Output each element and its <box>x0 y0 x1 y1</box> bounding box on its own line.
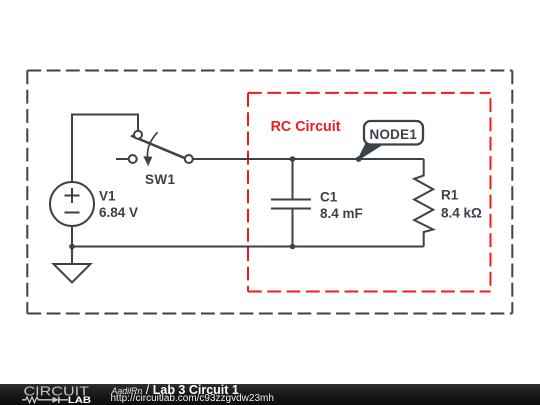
wire bottom rail <box>72 246 424 248</box>
switch arrow arc <box>147 132 157 157</box>
node NODE1 dot <box>356 156 362 162</box>
NODE1 callout tail <box>359 144 383 160</box>
svg-text:SW1: SW1 <box>145 172 176 187</box>
svg-text:NODE1: NODE1 <box>370 127 418 142</box>
logo resistor squiggle + diode <box>22 397 68 403</box>
CircuitLab logo <box>20 384 120 405</box>
NODE1 callout box <box>364 121 423 145</box>
RC circuit red dashed box <box>248 93 491 292</box>
svg-text:8.4 mF: 8.4 mF <box>320 206 363 221</box>
switch arrowhead <box>143 156 152 166</box>
switch blade SW1 <box>131 136 185 159</box>
ground <box>54 264 91 283</box>
junction node C1 top <box>290 156 296 162</box>
switch right terminal <box>185 155 193 163</box>
svg-text:R1: R1 <box>441 188 459 203</box>
capacitor C1 <box>271 159 311 247</box>
wire switch to node <box>193 158 424 160</box>
footer bar <box>0 384 540 405</box>
svg-text:V1: V1 <box>99 189 116 204</box>
svg-text:6.84 V: 6.84 V <box>99 205 138 220</box>
switch left terminal <box>129 155 137 163</box>
svg-text:8.4 kΩ: 8.4 kΩ <box>441 206 482 221</box>
junction node V1 bottom <box>69 244 75 250</box>
svg-text:RC Circuit: RC Circuit <box>271 119 341 135</box>
wire V1 bottom to ground <box>71 225 73 264</box>
switch pivot terminal <box>134 131 142 139</box>
outer dashed border <box>27 71 512 314</box>
junction node C1 bottom <box>290 244 296 250</box>
voltage source V1 <box>50 182 94 226</box>
svg-text:C1: C1 <box>320 190 338 205</box>
wire switch left stub <box>116 158 129 160</box>
resistor R1 <box>414 159 433 247</box>
wire V1 top to switch <box>72 115 138 184</box>
svg-text:LAB: LAB <box>68 395 91 405</box>
